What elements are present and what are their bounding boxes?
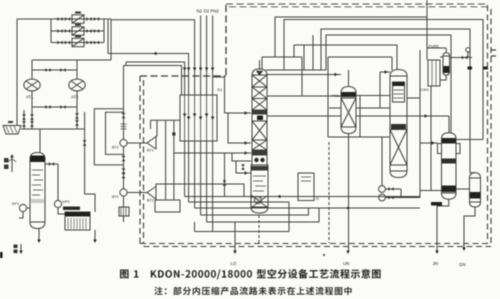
wire: capsule bottom link bbox=[440, 75, 446, 80]
svg-text:FN1: FN1 bbox=[332, 94, 339, 98]
wire: PN column right side line bbox=[407, 97, 420, 99]
cold box step edge bbox=[140, 75, 226, 77]
wire: FN1 drain to PN bbox=[360, 136, 390, 138]
flow meter box bbox=[298, 173, 314, 201]
wire: nest line 3 bbox=[326, 35, 451, 133]
wire: feed line c bbox=[232, 153, 251, 161]
wire: drop to silencer a bbox=[165, 120, 167, 200]
wire: bus y196.5 oxygen draw bbox=[185, 195, 420, 199]
wire: bus drop 1 bbox=[184, 141, 186, 197]
heater box below BT2 bbox=[119, 196, 129, 222]
cold box left edge (double) bbox=[140, 76, 144, 244]
wire: feed line a bbox=[225, 77, 252, 115]
caption line 2 bbox=[154, 287, 351, 295]
wire: KP2 down bbox=[58, 208, 65, 214]
cold box bottom edge (double) bbox=[140, 244, 491, 247]
svg-text:LO: LO bbox=[231, 261, 237, 266]
silencer box row3 bbox=[72, 35, 84, 46]
wire: water return line bbox=[85, 112, 95, 212]
wire: manifold drop to AT header bbox=[110, 19, 112, 60]
wire: feed line b bbox=[228, 113, 251, 145]
svg-text:BT2: BT2 bbox=[147, 199, 154, 203]
wire: nest drop b bbox=[303, 45, 305, 70]
vessel FN1 bbox=[332, 87, 356, 134]
wire: nest line 2 bbox=[321, 29, 475, 173]
wire: V1 to V2 link bbox=[456, 188, 470, 190]
valves on AT bypass y107 bbox=[45, 105, 65, 109]
wire: nest line 4 bbox=[294, 45, 397, 70]
cold box upper left edge bbox=[225, 5, 227, 76]
wire: BT1 outlet header bbox=[151, 120, 181, 129]
svg-text:BT2: BT2 bbox=[112, 195, 119, 199]
silencer box under BT2 bbox=[155, 200, 180, 212]
silencer box row1 bbox=[72, 12, 84, 24]
wire: BT1-BT2 link bbox=[123, 147, 125, 189]
wire: line y62 bbox=[126, 62, 186, 95]
wire: throttle feed y153 bbox=[174, 151, 251, 155]
wire: tower top side line bbox=[45, 163, 58, 165]
cold box right edge (double) bbox=[488, 5, 492, 247]
valves row3 bbox=[57, 41, 99, 45]
vessel PN column bbox=[390, 70, 407, 178]
cold box top edge bbox=[226, 4, 490, 7]
cooling tower KT bbox=[30, 153, 45, 229]
vessel V2 bbox=[470, 173, 481, 207]
water tank bbox=[63, 207, 90, 231]
wire: bottom loop y231.5 bbox=[195, 202, 290, 232]
caption line 1 bbox=[120, 269, 381, 279]
svg-text:CW1: CW1 bbox=[421, 88, 429, 92]
wire: manifold right bus bbox=[103, 19, 105, 43]
wire: FN1 bottom drain bbox=[328, 95, 360, 137]
wire: dashed liquid line bbox=[328, 142, 330, 243]
wire: subcool drop with valve bbox=[223, 153, 227, 197]
wire: E3 drop bbox=[430, 86, 432, 190]
wire: nest drop a + outer loop bbox=[284, 20, 483, 140]
wire: PN top left entry bbox=[380, 70, 390, 108]
wire: bus y202 bbox=[189, 201, 289, 203]
wire: E3 top connections bbox=[427, 17, 446, 60]
pump KP1 bbox=[12, 202, 30, 212]
wire: feed line d bbox=[236, 161, 251, 175]
wire: line y126 to silencer bbox=[125, 62, 127, 66]
wire: manifold bus drop bbox=[107, 20, 109, 54]
wire: tank bottom outlet arrow bbox=[93, 230, 97, 243]
pump CW2 bbox=[379, 194, 420, 201]
wire: turbine bypass loop outer bbox=[94, 109, 123, 165]
node: small junction dot bbox=[323, 254, 325, 256]
wire: KP1 drain bbox=[19, 212, 23, 218]
wire: manifold row3 bbox=[51, 42, 104, 44]
wire: inlet drop from header bbox=[16, 19, 18, 126]
valve on water return bbox=[83, 140, 87, 145]
wire: bus drop 6 bbox=[212, 141, 214, 232]
wire: row1 line to product bus bbox=[111, 20, 196, 95]
svg-text:N2 O2 PN2: N2 O2 PN2 bbox=[197, 9, 220, 14]
wire: line y65.5 bbox=[124, 66, 182, 96]
svg-text:KP2: KP2 bbox=[63, 200, 70, 204]
valves on AT bypass y70 bbox=[45, 68, 65, 72]
cooler AT1 bbox=[24, 79, 40, 99]
wire: bottom left drain arrow bbox=[14, 244, 23, 254]
wire: inlet header y19 bbox=[17, 18, 111, 20]
wire: product line O2 bbox=[205, 16, 209, 96]
valves between turbines bbox=[122, 156, 126, 178]
wire: big loop around FN1 bbox=[328, 57, 392, 137]
air filter bbox=[3, 121, 21, 134]
inline filter ticks bbox=[121, 124, 127, 129]
wire: liquid dashed drain bbox=[258, 215, 260, 243]
wire: turbine bypass loop inner bbox=[106, 112, 124, 154]
wire: V1 right side line bbox=[456, 139, 483, 141]
wire: gas feed to V1 bbox=[420, 141, 438, 145]
svg-text:BT1: BT1 bbox=[147, 149, 154, 153]
svg-text:KP1: KP1 bbox=[12, 202, 19, 206]
wire: bus drop 4 bbox=[200, 141, 202, 215]
valves row2 bbox=[57, 29, 99, 33]
wire: AT2 riser bbox=[76, 60, 78, 79]
wire: FN1 top feed bbox=[348, 70, 350, 87]
wire: AT bypass y107 bbox=[32, 106, 77, 108]
wire: turbine feed riser bbox=[123, 66, 125, 140]
wire: bus drop 2 bbox=[188, 141, 190, 202]
wire: tower bottom outlet arrow bbox=[37, 229, 41, 244]
wire: filter to tower bbox=[39, 129, 41, 153]
valve pair on AT1 downcomer bbox=[22, 110, 26, 129]
valve on turbine riser bbox=[122, 113, 126, 118]
wire: AT bypass y70 bbox=[32, 69, 77, 71]
svg-text:D: D bbox=[316, 196, 319, 201]
svg-text:BT1: BT1 bbox=[112, 146, 119, 150]
capsule adsorber bbox=[443, 53, 450, 75]
air inlet arrow bbox=[4, 154, 16, 172]
wire: bus y222 bbox=[207, 208, 319, 222]
pump at column bottom bbox=[252, 196, 267, 207]
wire: pump discharge to vessel bbox=[420, 190, 442, 192]
pump CW1 bbox=[379, 186, 401, 198]
wire: main air line y129 bbox=[21, 128, 85, 130]
wire: bus y208 bbox=[195, 207, 420, 209]
edge scan artifact bbox=[0, 252, 3, 258]
wire: y108 link bbox=[329, 107, 390, 109]
silencer box row2 bbox=[72, 24, 84, 35]
wire: edge marks bbox=[491, 50, 496, 56]
node: line tick labels bbox=[468, 67, 473, 70]
wire: BT2 outlet bbox=[156, 184, 244, 197]
wire: AT1 downcomer bbox=[31, 91, 33, 129]
cooler AT2 bbox=[69, 79, 85, 99]
valves row1 bbox=[57, 17, 99, 21]
turbine BT1 bbox=[112, 137, 156, 153]
svg-text:AT2: AT2 bbox=[71, 95, 79, 100]
wire: long link y116 bbox=[267, 114, 449, 118]
wire: BT1 outlet riser bbox=[156, 120, 158, 136]
wire: GN product drop bbox=[459, 207, 475, 267]
svg-text:AT1: AT1 bbox=[26, 95, 34, 100]
heat exchanger E1 bbox=[180, 87, 223, 141]
wire: LO product drop bbox=[231, 222, 237, 266]
wire: bus drop 3 bbox=[194, 141, 196, 208]
wire: product line PN2 bbox=[211, 16, 215, 96]
svg-text:GN: GN bbox=[459, 262, 466, 267]
main condenser K1 bbox=[252, 155, 267, 165]
svg-text:UN: UN bbox=[343, 261, 349, 266]
turbine BT2 bbox=[112, 187, 156, 203]
wire: manifold left bus bbox=[50, 19, 52, 43]
wire: product header y77 bbox=[213, 76, 225, 78]
wire: product line N2 bbox=[199, 16, 203, 96]
valves on AT2 downcomer bbox=[30, 113, 79, 126]
wire: nest line 1 bbox=[275, 0, 427, 60]
wire: vent to right edge bbox=[450, 48, 473, 60]
wire: manifold row2 bbox=[51, 30, 104, 32]
wire: bus drop 5 bbox=[206, 141, 208, 222]
pump KP2 bbox=[54, 200, 69, 208]
wire: AT1 riser bbox=[31, 60, 33, 79]
wire: pump feed drop bbox=[381, 137, 383, 186]
wire: column to PN column y96 bbox=[267, 95, 390, 98]
wire: bus y215 bbox=[201, 208, 309, 215]
wire: AT header y58 bbox=[32, 59, 111, 61]
wire: waste N2 line y53.5 bbox=[108, 52, 190, 95]
wire: side drop to pump KP2 bbox=[57, 164, 59, 200]
wire: nest drop c bbox=[312, 35, 314, 70]
wire: right feed drop bbox=[419, 50, 421, 198]
valve on tower side bbox=[49, 162, 54, 166]
wire: V1 top feed bbox=[448, 116, 450, 133]
wire: JN product drop bbox=[433, 199, 449, 266]
wire: UN product drop bbox=[343, 137, 350, 266]
wire: drop to silencer b bbox=[172, 120, 175, 200]
wire: AT2 downcomer bbox=[76, 91, 78, 129]
wire: column top header 2 bbox=[266, 69, 326, 71]
wire: column to FN1 top bbox=[267, 73, 341, 77]
wire: column top header 1 bbox=[262, 57, 302, 96]
vessel V1 bbox=[431, 133, 460, 206]
exchanger E3 bbox=[428, 45, 440, 87]
lower column C2 bbox=[251, 165, 268, 213]
valve on feed d bbox=[241, 164, 245, 169]
svg-text:E1: E1 bbox=[218, 87, 224, 92]
upper column C1 bbox=[252, 60, 267, 155]
svg-text:JN: JN bbox=[433, 261, 438, 266]
